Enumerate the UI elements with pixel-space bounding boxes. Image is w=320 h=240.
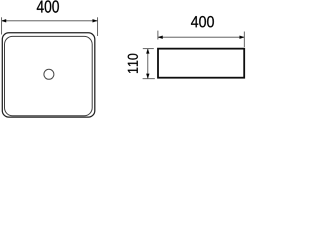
side view: dimension label 110 (rotated): [128, 54, 138, 73]
top view: right dimension arrowhead: [93, 19, 98, 22]
top view: inner bowl edge: [5, 36, 93, 115]
side view: right extension line of 400: [243, 32, 245, 48]
side view: dimension label 400: [191, 16, 214, 27]
top view: dimension label 400: [37, 0, 59, 12]
side view: bottom extension line of 110: [143, 78, 155, 80]
top view: drain hole: [44, 69, 54, 79]
side view: right dimension arrowhead of 400: [240, 36, 245, 39]
side view: left dimension arrowhead of 400: [158, 36, 163, 39]
side view: bottom dimension arrowhead of 110: [146, 74, 149, 79]
side view: dimension line 110: [147, 49, 149, 79]
top view: dimension line 400: [2, 20, 98, 22]
top view: outer rim of basin: [2, 33, 95, 117]
top view: left extension line: [1, 17, 3, 34]
side view: top dimension arrowhead of 110: [146, 49, 149, 54]
side view: left extension line of 400: [157, 31, 159, 40]
top view: left dimension arrowhead: [2, 19, 7, 22]
side view: top extension line of 110: [143, 48, 154, 50]
side view: basin body outline: [158, 49, 244, 78]
side view: dimension line 400: [158, 36, 244, 38]
top view: right extension line: [97, 17, 99, 36]
